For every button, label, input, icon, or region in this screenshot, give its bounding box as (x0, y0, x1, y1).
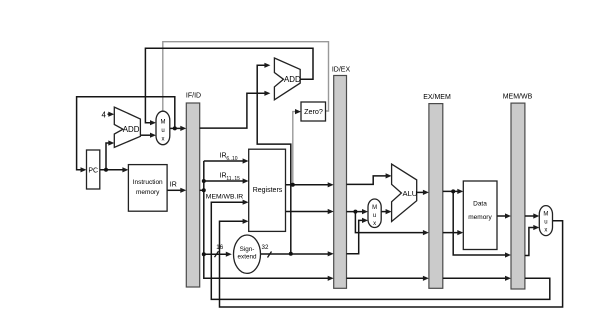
svg-text:u: u (544, 220, 547, 226)
svg-text:M: M (543, 212, 548, 218)
svg-text:IF/ID: IF/ID (186, 93, 201, 100)
svg-text:6..10: 6..10 (226, 156, 237, 162)
svg-text:extend: extend (238, 254, 257, 261)
svg-text:MEM/WB: MEM/WB (503, 94, 533, 101)
svg-text:x: x (162, 137, 165, 143)
svg-text:11..15: 11..15 (226, 176, 240, 182)
svg-text:M: M (161, 120, 166, 126)
svg-text:ALU: ALU (403, 189, 418, 198)
svg-text:PC: PC (88, 168, 98, 175)
svg-text:memory: memory (468, 214, 492, 221)
svg-text:EX/MEM: EX/MEM (423, 94, 451, 101)
svg-text:memory: memory (136, 189, 160, 196)
svg-text:ADD: ADD (284, 75, 301, 84)
svg-text:Zero?: Zero? (304, 107, 323, 116)
svg-text:ADD: ADD (123, 125, 140, 134)
svg-text:MEM/WB.IR: MEM/WB.IR (206, 193, 243, 200)
svg-text:ID/EX: ID/EX (332, 67, 351, 74)
svg-text:u: u (161, 128, 164, 134)
svg-text:Data: Data (473, 201, 487, 208)
svg-text:Sign-: Sign- (240, 246, 255, 253)
svg-text:u: u (373, 213, 376, 219)
svg-text:M: M (372, 205, 377, 211)
svg-text:4: 4 (102, 111, 107, 120)
svg-text:Instruction: Instruction (133, 179, 163, 186)
svg-text:x: x (373, 221, 376, 227)
svg-text:16: 16 (216, 244, 223, 251)
svg-text:IR: IR (170, 182, 177, 189)
svg-text:32: 32 (262, 244, 269, 251)
svg-text:Registers: Registers (253, 187, 283, 194)
svg-text:x: x (544, 228, 547, 234)
